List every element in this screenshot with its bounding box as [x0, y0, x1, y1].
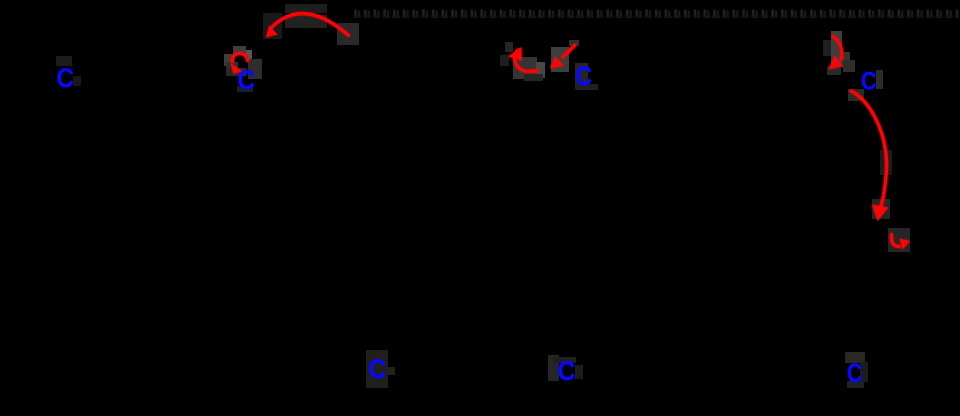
artifact blobs near atom label C1	[56, 56, 81, 86]
curved arrow A2 (small hook above C2)	[232, 53, 247, 61]
curved arrow A3 (hook, arrowhead left)	[514, 50, 537, 71]
arrowhead of A7	[900, 239, 911, 250]
artifact blobs near label C6	[548, 355, 583, 381]
soft halo copy of arrows and labels (jpeg bleed)	[57, 14, 911, 388]
curved arrow A4 (short diagonal, large head)	[563, 46, 575, 58]
artifact blobs near arrow A1	[263, 4, 359, 45]
artifact blobs near label C4 and arc A6	[848, 70, 910, 252]
curved arrow A5 (vertical curl, head down-left)	[833, 37, 842, 60]
curved arrow A1 (long arc, arrowhead left)	[272, 14, 349, 36]
arrowhead of A4	[550, 57, 564, 69]
artifact blobs near arrow A5	[823, 31, 855, 75]
arrowhead of A6	[872, 205, 889, 222]
artifact blobs near arrow A3	[500, 42, 545, 81]
arrowhead of A2	[231, 63, 243, 74]
watermark strip	[353, 8, 959, 19]
svg-text:C: C	[861, 68, 877, 96]
arrowhead of A1	[266, 26, 278, 38]
curved arrow A7 (small bottom hook, head right)	[891, 235, 899, 247]
artifact blobs near label C7	[845, 352, 868, 388]
svg-text:C: C	[847, 358, 862, 388]
svg-text:C: C	[238, 65, 256, 95]
svg-text:C: C	[576, 61, 593, 91]
artifact blobs near arrow A2 and label C2	[224, 46, 262, 92]
svg-text:C: C	[369, 354, 387, 384]
artifact blobs near arrow A4 and label C3	[551, 40, 598, 90]
arrowhead of A3	[508, 47, 522, 61]
arrowhead of A5	[829, 56, 844, 70]
svg-text:C: C	[558, 356, 576, 386]
curved arrow A6 (long arc down right side)	[851, 91, 887, 206]
artifact blobs near label C5	[366, 350, 395, 388]
svg-text:C: C	[57, 63, 75, 93]
